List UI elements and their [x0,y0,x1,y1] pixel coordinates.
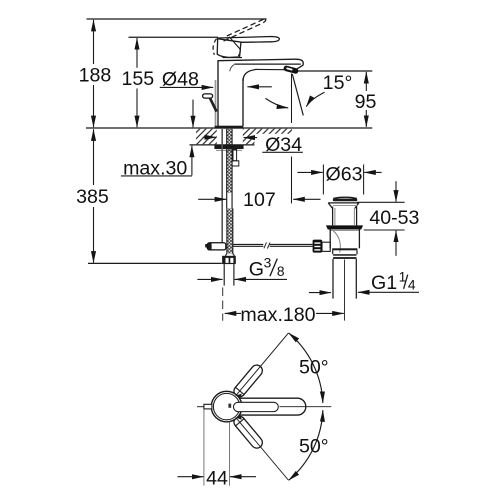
svg-text:G: G [249,258,264,280]
svg-text:188: 188 [79,65,112,87]
svg-text:4: 4 [408,278,416,293]
svg-text:50°: 50° [299,356,329,378]
svg-text:40-53: 40-53 [369,207,419,229]
svg-text:15°: 15° [323,72,353,94]
svg-text:G1: G1 [371,272,397,294]
svg-text:Ø63: Ø63 [325,163,362,185]
svg-text:max.30: max.30 [123,158,187,180]
svg-text:385: 385 [76,186,109,208]
svg-text:50°: 50° [299,436,329,458]
svg-text:95: 95 [355,91,377,113]
svg-text:107: 107 [243,189,276,211]
svg-text:3: 3 [264,255,272,270]
svg-text:44: 44 [206,467,228,489]
svg-text:8: 8 [277,264,285,279]
svg-text:max.180: max.180 [240,304,315,326]
svg-text:155: 155 [121,68,154,90]
